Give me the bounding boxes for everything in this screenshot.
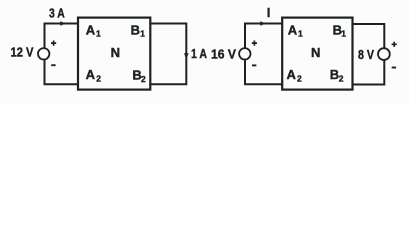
svg-text:A: A	[288, 22, 298, 37]
svg-text:N: N	[311, 45, 320, 60]
svg-text:N: N	[111, 45, 120, 60]
svg-text:B: B	[330, 67, 339, 82]
svg-text:8 V: 8 V	[358, 47, 374, 62]
svg-text:3 A: 3 A	[49, 6, 65, 21]
svg-text:12 V: 12 V	[11, 45, 34, 60]
svg-text:16 V: 16 V	[211, 46, 236, 61]
svg-text:1: 1	[341, 28, 346, 38]
svg-text:1: 1	[140, 28, 145, 38]
svg-text:2: 2	[96, 74, 101, 84]
svg-text:2: 2	[339, 74, 344, 84]
svg-text:A: A	[86, 67, 96, 82]
svg-text:I: I	[267, 5, 271, 20]
svg-text:1 A: 1 A	[191, 46, 207, 61]
svg-text:A: A	[287, 67, 297, 82]
svg-text:B: B	[131, 23, 140, 38]
svg-text:2: 2	[141, 74, 146, 84]
svg-text:A: A	[86, 22, 96, 37]
svg-text:1: 1	[96, 28, 101, 38]
svg-text:1: 1	[298, 28, 303, 38]
svg-text:2: 2	[297, 73, 302, 83]
